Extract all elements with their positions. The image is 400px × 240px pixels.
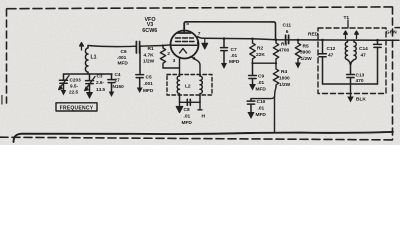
label C11 value — [283, 23, 292, 36]
resistor R5 — [295, 40, 300, 63]
capacitor C11 (series) — [286, 35, 289, 43]
junction node R3 R4 — [275, 62, 277, 64]
T1 left winding — [345, 40, 350, 63]
T1 bottom rail — [323, 83, 378, 85]
label C3 value — [96, 74, 106, 93]
inductor L2 right winding — [200, 76, 202, 102]
resistor R3 — [273, 40, 278, 63]
junction C14 — [376, 39, 379, 42]
junction T1 windings — [349, 62, 352, 65]
transformer T1 dashed box — [318, 28, 386, 94]
wire pin 3 cathode down — [179, 58, 181, 76]
ground below C9 — [249, 84, 256, 91]
tube V3 envelope — [171, 31, 199, 59]
junction R1 top — [162, 44, 164, 46]
T1 right winding — [351, 40, 357, 63]
label C6 value — [117, 49, 128, 67]
FREQUENCY label box — [56, 103, 97, 111]
label C9 value — [256, 74, 267, 93]
capacitor C7 — [221, 39, 228, 63]
capacitor C10 — [247, 99, 255, 112]
wire branch to C10 — [251, 97, 275, 99]
ground below C8 — [176, 102, 182, 112]
ground BLK arrow — [347, 97, 353, 103]
wire plate rail tube to right — [198, 37, 400, 41]
ground below C10 — [247, 112, 254, 119]
tube heater — [180, 49, 187, 54]
ground arrow at pin 6 — [202, 39, 208, 49]
label tube heading VFO V3 6CW6 — [142, 17, 157, 34]
capacitor C13 — [347, 64, 355, 85]
inductor L1 — [85, 46, 88, 75]
ground below C3 — [86, 92, 93, 99]
ground below C5 — [137, 88, 143, 94]
label C14 value — [359, 46, 368, 59]
wire R4 bottom to ground bus — [275, 87, 277, 132]
C3 adjust arrow — [85, 77, 95, 91]
T1 secondary slug arrow — [355, 31, 359, 39]
wire grid rail from L1 to tube — [88, 45, 171, 47]
shield enclosure dashed bottom edge — [0, 137, 393, 140]
capacitor C5 — [136, 46, 144, 88]
T1 label pointer — [347, 20, 349, 28]
tube grid dashes — [176, 38, 195, 42]
wire R2 node to R3 R4 junction — [253, 62, 277, 64]
junction C12 — [321, 39, 324, 42]
capacitor C8 — [187, 99, 190, 105]
variable capacitor C203 — [60, 74, 68, 90]
capacitor C6 (series) — [136, 42, 139, 54]
capacitor C8 wire — [180, 101, 201, 103]
junction C7 — [223, 37, 226, 40]
shield enclosure dashed left edge — [6, 9, 8, 103]
shield enclosure dashed right edge — [392, 7, 394, 140]
inductor L1 slug arrow — [80, 43, 84, 50]
label R5 value — [300, 44, 312, 63]
label R3 value — [279, 42, 290, 54]
terminal H — [198, 102, 202, 110]
T1 primary slug arrow — [344, 31, 348, 39]
tank bottom wire — [64, 73, 113, 75]
ground below R5 — [295, 63, 301, 69]
junction R3 plate — [275, 39, 278, 42]
tube cathode line — [172, 44, 197, 46]
ground below C7 — [221, 63, 227, 69]
label C5 value — [143, 75, 154, 95]
label C8 value — [182, 107, 193, 126]
resistor R2 — [250, 39, 255, 63]
capacitor C4 — [108, 74, 115, 92]
label C13 value — [356, 73, 365, 85]
shield enclosure dashed top edge — [7, 7, 392, 9]
capacitor C14 — [374, 40, 382, 84]
resistor R4 — [273, 63, 278, 87]
label R1 value — [143, 46, 155, 65]
continuation dash top right — [395, 27, 400, 29]
junction R5 — [297, 39, 300, 42]
scan edge artifact left — [1, 95, 2, 105]
paper noise texture — [0, 0, 1, 1]
variable capacitor C3 — [86, 74, 94, 92]
label C10 value — [256, 99, 267, 118]
wire R1 bottom to cathode — [163, 67, 180, 69]
capacitor C9 — [249, 63, 257, 84]
wire pin 4 heater down — [191, 57, 201, 77]
label R2 value — [256, 46, 265, 59]
capacitor C12 — [319, 40, 327, 84]
ground below C203 — [61, 90, 67, 96]
L2 shield dashed box — [167, 75, 212, 96]
label C7 value — [229, 47, 240, 65]
resistor R1 — [160, 46, 165, 68]
wire center tap to ground — [350, 84, 352, 97]
junction node R2 bottom — [251, 62, 253, 64]
ground bus wire (chassis) — [14, 132, 394, 142]
label C12 value — [327, 46, 336, 59]
plate wire pin5 to R3 node — [184, 22, 275, 40]
junction R2 — [251, 38, 254, 41]
inductor L2 left winding — [177, 76, 179, 102]
label C203 value — [69, 78, 81, 95]
tube plate — [178, 24, 192, 34]
label C4 value — [113, 72, 125, 89]
C203 adjust arrow — [59, 76, 69, 90]
label R4 value — [279, 69, 291, 88]
ground below C4 — [109, 92, 115, 98]
